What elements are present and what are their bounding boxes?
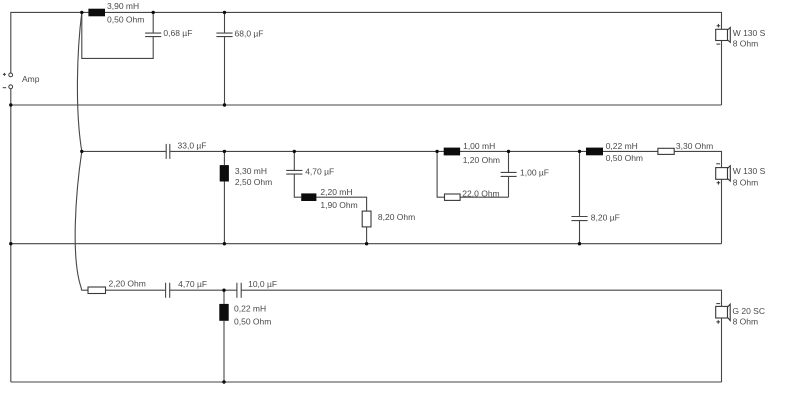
wire	[223, 290, 225, 304]
capacitor C3 33,0 uF plates	[166, 144, 170, 159]
wire	[223, 182, 225, 244]
svg-text:8,20 Ohm: 8,20 Ohm	[378, 212, 415, 222]
node I junction L4 / R2 tap	[435, 150, 438, 153]
svg-text:Amp: Amp	[22, 74, 40, 84]
wire	[10, 89, 12, 382]
svg-text:2,50 Ohm: 2,50 Ohm	[235, 177, 272, 187]
amp + terminal	[3, 73, 13, 77]
node H junction C4 tap	[293, 150, 296, 153]
wire	[316, 197, 366, 211]
svg-text:W 130 S: W 130 S	[733, 28, 766, 38]
wire	[11, 12, 722, 73]
svg-text:0,68 µF: 0,68 µF	[163, 28, 192, 38]
resistor R3 3,30 Ohm	[658, 148, 674, 154]
node E junction left rail / branch1 return	[9, 103, 12, 106]
svg-text:0,50 Ohm: 0,50 Ohm	[234, 316, 271, 326]
svg-text:4,70 µF: 4,70 µF	[305, 167, 334, 177]
svg-text:4,70 µF: 4,70 µF	[178, 279, 207, 289]
inductor L5 0,22 mH	[586, 148, 603, 156]
wire	[721, 318, 723, 382]
capacitor C2 68,0 uF plates	[216, 33, 232, 37]
wire	[11, 381, 722, 383]
svg-text:8 Ohm: 8 Ohm	[733, 39, 759, 49]
node L junction left rail / branch2 return	[9, 242, 12, 245]
inductor L2 3,30 mH	[220, 165, 229, 181]
speaker SP3 -	[716, 303, 720, 305]
svg-text:3,30 mH: 3,30 mH	[235, 166, 267, 176]
inductor L4 1,00 mH	[444, 148, 460, 156]
wire	[579, 151, 581, 216]
capacitor C5 1,00 uF plates	[501, 172, 517, 176]
node K junction C6 top	[578, 150, 581, 153]
svg-text:3,30 Ohm: 3,30 Ohm	[676, 141, 713, 151]
wire	[241, 290, 721, 306]
capacitor C1 0,68 uF plates	[145, 33, 161, 37]
node G junction C3 / L2	[223, 150, 226, 153]
wire	[579, 221, 581, 244]
speaker SP3 +	[716, 320, 720, 324]
svg-text:0,50 Ohm: 0,50 Ohm	[107, 14, 144, 24]
speaker SP2 +	[717, 181, 721, 185]
wire	[82, 150, 166, 152]
inductor L1 3,90 mH	[88, 9, 105, 17]
node F junction branch2 input	[80, 150, 83, 153]
svg-text:2,20 mH: 2,20 mH	[320, 187, 352, 197]
wire	[293, 151, 295, 170]
svg-text:68,0 µF: 68,0 µF	[235, 28, 264, 38]
wire	[223, 321, 225, 382]
speaker SP1 +	[717, 24, 721, 28]
wire	[75, 151, 82, 290]
wire	[437, 151, 444, 197]
svg-text:2,20 Ohm: 2,20 Ohm	[109, 279, 146, 289]
resistor R4 2,20 Ohm	[88, 287, 106, 294]
resistor R2 22,0 Ohm	[445, 194, 461, 200]
capacitor C8 10,0 uF plates	[237, 283, 241, 298]
wire	[224, 37, 226, 105]
wire	[508, 176, 510, 197]
svg-text:0,22 mH: 0,22 mH	[234, 304, 266, 314]
node J junction L4 out / C5	[507, 150, 510, 153]
svg-text:1,00 mH: 1,00 mH	[463, 141, 495, 151]
node C junction C2 top	[223, 11, 226, 14]
wire	[170, 289, 237, 291]
node D junction C2 bottom	[223, 103, 226, 106]
speaker SP1 -	[716, 43, 720, 45]
speaker SP1 W 130 S	[716, 28, 731, 43]
node O junction C6 bottom	[578, 242, 581, 245]
speaker SP3 G 20 SC	[716, 304, 731, 320]
svg-text:33,0 µF: 33,0 µF	[178, 141, 207, 151]
wire	[508, 151, 510, 172]
node M junction L2 bottom	[223, 242, 226, 245]
wire	[11, 104, 722, 106]
svg-text:8 Ohm: 8 Ohm	[733, 177, 759, 187]
wire	[11, 243, 722, 245]
svg-text:10,0 µF: 10,0 µF	[248, 279, 277, 289]
svg-text:W 130 S: W 130 S	[733, 166, 766, 176]
wire	[81, 289, 165, 291]
wire	[460, 196, 508, 198]
capacitor C4 4,70 uF plates	[286, 170, 302, 174]
svg-text:1,20 Ohm: 1,20 Ohm	[463, 155, 500, 165]
wire	[721, 40, 723, 105]
wire	[224, 12, 226, 33]
wire	[294, 174, 301, 197]
svg-text:G 20 SC: G 20 SC	[732, 306, 765, 316]
svg-text:0,22 mH: 0,22 mH	[606, 141, 638, 151]
wire	[82, 12, 153, 58]
node P junction C7/C8 / L6 top	[222, 289, 225, 292]
inductor L6 0,22 mH	[219, 304, 228, 321]
speaker SP2 -	[716, 163, 720, 165]
svg-text:3,90 mH: 3,90 mH	[107, 1, 139, 11]
svg-text:8 Ohm: 8 Ohm	[733, 317, 759, 327]
node N junction R1 bottom	[365, 242, 368, 245]
wire	[223, 151, 225, 165]
inductor L3 2,20 mH	[301, 193, 316, 201]
svg-text:0,50 Ohm: 0,50 Ohm	[606, 153, 643, 163]
resistor R1 8,20 Ohm	[362, 211, 371, 227]
capacitor C6 8,20 uF plates	[571, 217, 587, 221]
svg-text:8,20 µF: 8,20 µF	[591, 212, 620, 222]
node Q junction L6 bottom / branch3 return	[222, 380, 225, 383]
node A junction top wire / L1 input	[80, 11, 83, 14]
wire	[152, 12, 154, 33]
amp - terminal	[3, 85, 13, 89]
svg-text:1,00 µF: 1,00 µF	[520, 168, 549, 178]
speaker SP2 W 130 S	[716, 166, 731, 181]
capacitor C7 4,70 uF plates	[166, 283, 170, 298]
wire	[366, 227, 368, 244]
wire	[77, 12, 81, 151]
svg-text:1,90 Ohm: 1,90 Ohm	[320, 200, 357, 210]
wire	[170, 151, 722, 167]
wire	[721, 179, 723, 243]
node B junction L1 output / C1	[152, 11, 155, 14]
svg-text:22,0 Ohm: 22,0 Ohm	[462, 188, 499, 198]
